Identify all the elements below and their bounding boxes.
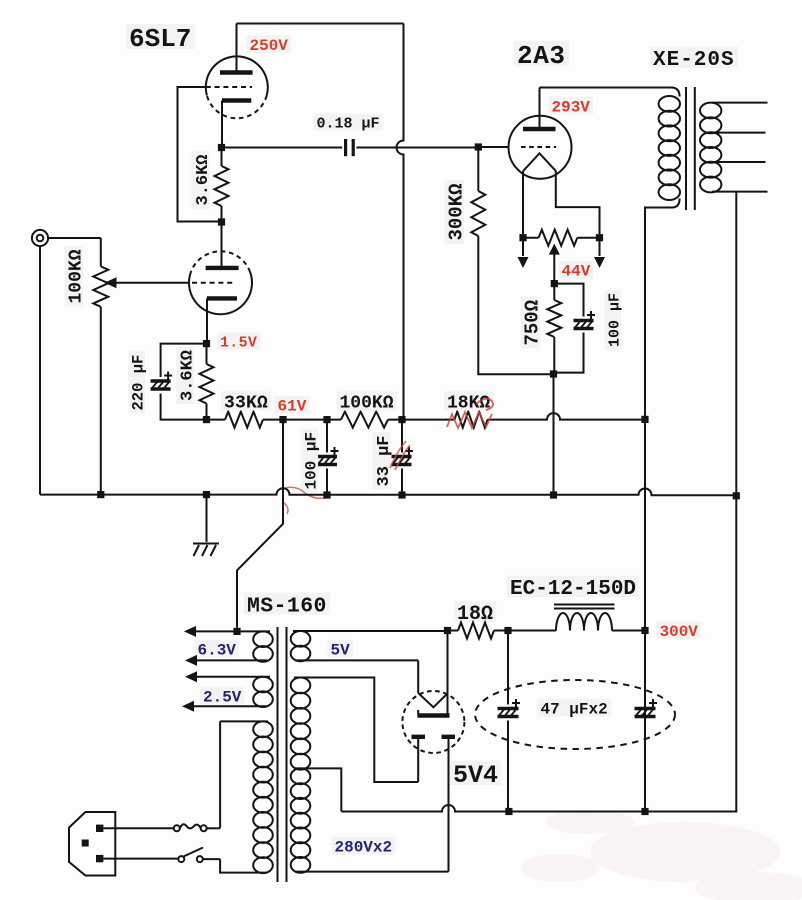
wire V1a grid return [178,87,219,222]
wire jack ground drop [39,246,41,495]
node 44V [551,280,558,287]
tube 5V4 envelope [402,691,464,753]
capacitor 100uF-1 wiring [326,420,328,495]
label 100KOhm pot [64,246,86,306]
tube 2A3 filament [523,153,556,171]
wire 2.5V bottom tap [194,705,267,707]
wire plug to fuse [103,827,173,829]
capacitor 220uF wiring [161,344,207,420]
potentiometer hum balance [523,230,600,246]
wire OPT secondary tap 16ohm [712,102,768,104]
wire 300V line [644,419,646,811]
node pot ground [97,491,104,498]
svg-text:100 μF: 100 μF [607,293,624,347]
label 250V [247,35,292,55]
wire primary bottom tap [220,859,266,873]
label EC-12-150D [507,576,639,601]
wire 2A3 plate to OPT primary [540,88,680,97]
svg-text:6SL7: 6SL7 [129,24,191,54]
wire 18ohm leads [448,630,509,632]
tube V1a 6SL7 section-1 envelope [206,56,268,118]
label 61V [275,396,310,416]
svg-text:2A3: 2A3 [517,41,566,71]
wire OPT secondary tap 0ohm [712,191,768,193]
wire 2A3 filament left leg [522,171,524,234]
label XE-20S [650,47,738,72]
wire jack to pot [48,237,101,239]
label 47uFx2 [538,699,611,719]
tube 5V4 plate right [442,737,456,872]
svg-text:250V: 250V [250,37,289,55]
svg-text:300KΩ: 300KΩ [446,183,468,240]
svg-text:0.18 μF: 0.18 μF [317,116,380,133]
label MS-160 [244,593,330,619]
svg-text:2.5V: 2.5V [203,689,242,707]
tube 2A3 plate [523,88,556,130]
svg-text:300V: 300V [660,623,699,641]
node ground stem [203,491,210,498]
wire OPT secondary tap 4ohm [714,161,766,163]
transformer MS-160 core [278,627,287,882]
svg-text:3.6KΩ: 3.6KΩ [179,350,198,401]
wire grid stopper line [478,146,508,148]
tube 5V4 cathode bar [418,710,450,716]
transformer XE-20S secondary winding [700,103,721,193]
label 300KOhm [445,180,468,243]
transformer MS-160 6.3V winding [253,631,273,661]
wire fuse to primary [207,827,220,829]
label 3.6KOhm-2 [176,347,197,404]
wire OPT secondary tap 8ohm [714,132,766,134]
svg-text:220 μF: 220 μF [130,355,148,411]
potentiometer 100K volume [93,238,108,495]
svg-text:293V: 293V [552,99,591,117]
transformer MS-160 primary winding [253,721,273,873]
resistor 3.6K-2 [200,344,214,420]
label 2A3 [514,41,569,71]
label 33KOhm [221,391,271,413]
svg-text:5V4: 5V4 [453,761,498,790]
transformer MS-160 5V winding [291,631,311,661]
switch [178,848,203,863]
AC plug [69,812,115,876]
wire 250V feed vertical with hop over coupling line [397,24,404,420]
ground symbol [193,544,219,557]
label 1.5V [217,333,260,352]
svg-text:MS-160: MS-160 [247,595,327,619]
capacitor 33uF wiring [401,420,403,495]
hum pot wiper arrow [553,252,555,284]
arrow filament left to 2.5V [522,238,524,256]
red scribble near ground bus node [282,487,330,514]
capacitor 100uF-2 [574,311,596,329]
transformer XE-20S primary winding [659,96,680,200]
label 750Ohm [521,297,544,349]
wire switch to primary [203,858,220,860]
resistor 300K grid leak [471,147,553,374]
svg-text:47 μFx2: 47 μFx2 [541,701,608,719]
svg-text:280Vx2: 280Vx2 [335,839,393,857]
label 280Vx2 [332,837,396,857]
resistor 33K [225,412,263,428]
svg-text:1.5V: 1.5V [220,335,257,352]
wire choke left lead [508,630,556,632]
label 18Ohm [454,601,496,626]
node 100uF-1 ground [323,491,330,498]
label 5V4 [450,761,501,790]
node 2A3 cathode ground [550,491,557,498]
capacitor 47uF-1 [498,699,521,717]
node 33uF ground [398,491,405,498]
label 6SL7 [126,24,195,54]
wire plug to switch [103,858,178,860]
svg-text:100KΩ: 100KΩ [67,249,87,303]
node 2A3 grid [475,143,482,150]
node 300V to 18K [641,416,648,423]
node hum pot left [519,234,526,241]
wire OPT primary bottom lead [645,199,680,420]
node 250V rail [398,416,405,423]
label 0.18uF [314,114,383,133]
svg-text:44V: 44V [562,263,591,281]
node V1b cathode 1.5V [203,340,210,347]
capacitor 47uF-2 [635,699,658,717]
tube 2A3 grid dashes [521,146,556,148]
node cathode network bottom [203,416,210,423]
svg-text:100KΩ: 100KΩ [340,394,394,414]
resistor 18ohm [458,623,494,639]
transformer MS-160 HV lower winding [291,768,311,872]
transformer MS-160 2.5V winding [253,677,273,707]
wire ground bus with hops [40,488,736,495]
capacitor 100uF-2 wiring [554,284,583,373]
wire 6.3V top tap [196,630,270,632]
resistor 18K [455,412,488,428]
wire coupling line [222,147,479,149]
label 6.3V [195,640,240,660]
svg-text:18KΩ: 18KΩ [447,394,490,414]
label 300V [657,621,702,641]
svg-text:61V: 61V [278,398,307,416]
node choke left [504,627,511,634]
tube V1a grid [206,86,252,88]
node 18ohm left 5V4 output [444,627,451,634]
resistor 100K [341,412,388,428]
svg-text:33KΩ: 33KΩ [224,394,268,414]
wire 5V winding bottom to 5V4 [417,660,419,693]
resistor 750 cathode [547,284,561,375]
transformer XE-20S core [686,87,695,210]
tube V1b cathode [207,298,237,343]
tube 2A3 envelope [509,116,572,179]
tube 5V4 plate left [412,737,426,782]
wire ground stem [206,495,208,542]
label 100uF-2 [605,290,624,350]
svg-text:3.6KΩ: 3.6KΩ [194,154,213,205]
capacitor 47uF-1 wiring [507,631,509,812]
capacitor 100uF-1 [317,447,339,465]
red scribble over 18K [447,399,493,428]
node 47uF-2 bottom [641,808,648,815]
node heater elevation on 6.3V tap [233,628,240,635]
wire 2.5V top tap [197,676,270,678]
label 33uF [373,432,394,489]
resistor 3.6K-1 [215,148,229,223]
svg-text:750Ω: 750Ω [522,300,544,346]
wire 5V bottom tap [295,659,418,661]
label 220uF [128,352,147,414]
wire heater elevation 61V to 6.3V winding [237,420,283,628]
wire choke right lead [612,630,645,632]
node 61V [279,416,286,423]
tube V1a cathode [222,101,251,148]
capacitor 33uF [392,447,414,465]
node 47uF-1 bottom [505,808,512,815]
node 2A3 cathode bottom [550,370,557,377]
tube V1a plate [220,24,253,73]
node V1b plate node [218,218,225,225]
capacitor 220uF [151,372,173,390]
wire HV center tap to return bus [294,768,341,811]
node 100uF-1 top [323,416,330,423]
wire 5V top tap [293,630,448,632]
label 293V [549,97,594,117]
wire 2A3 cathode to ground bus [553,374,555,495]
node hum pot right [596,234,603,241]
wire 5V winding top to 5V4 [447,631,449,716]
transformer MS-160 HV upper winding [291,678,311,770]
red scribble near 33uF [390,441,410,470]
node speaker return ground [733,492,740,499]
svg-text:100 μF: 100 μF [303,432,321,490]
wire primary top tap [220,721,268,828]
label 2.5V [200,687,245,707]
label 5V [328,640,353,660]
tube V1b plate [206,222,239,268]
svg-text:33 μF: 33 μF [375,435,394,486]
wire HV top to left plate [294,678,418,783]
node 300V [641,627,648,634]
tube V1b grid [192,282,236,284]
wire bottom return bus with hop over plate lead [341,805,736,811]
wire 6.3V bottom tap [197,659,267,661]
wire mid rail with hop over 2A3 cathode leg [207,413,646,420]
fuse [174,824,207,831]
pot wiper arrow to V1b grid [112,282,189,284]
input jack [32,230,48,246]
label 44V [559,261,594,281]
svg-text:EC-12-150D: EC-12-150D [510,578,636,601]
label 3.6KOhm-1 [192,151,213,208]
capacitor 0.18uF [346,139,354,156]
inductor choke EC-12-150D [554,605,615,631]
svg-text:18Ω: 18Ω [457,603,493,626]
tube V1b 6SL7 section-2 envelope [189,251,252,314]
wire B+ top line [237,23,404,25]
arrow filament right to 2.5V [599,238,601,256]
label 18KOhm [444,391,493,413]
label 100uF-1 [301,429,321,493]
wire OPT secondary return [645,192,736,812]
capacitor 47uF-2 wiring [644,631,646,812]
svg-text:XE-20S: XE-20S [653,49,735,72]
svg-text:6.3V: 6.3V [198,642,237,660]
node plate junction V1b / cathode V1a [218,144,225,151]
dashed ellipse 47uFx2 group [475,680,675,749]
tube 5V4 filament [418,693,447,707]
wire 2A3 filament right leg [556,171,600,234]
svg-text:5V: 5V [331,642,351,660]
wire HV bottom to right plate [295,871,449,873]
label 100KOhm [337,391,397,413]
